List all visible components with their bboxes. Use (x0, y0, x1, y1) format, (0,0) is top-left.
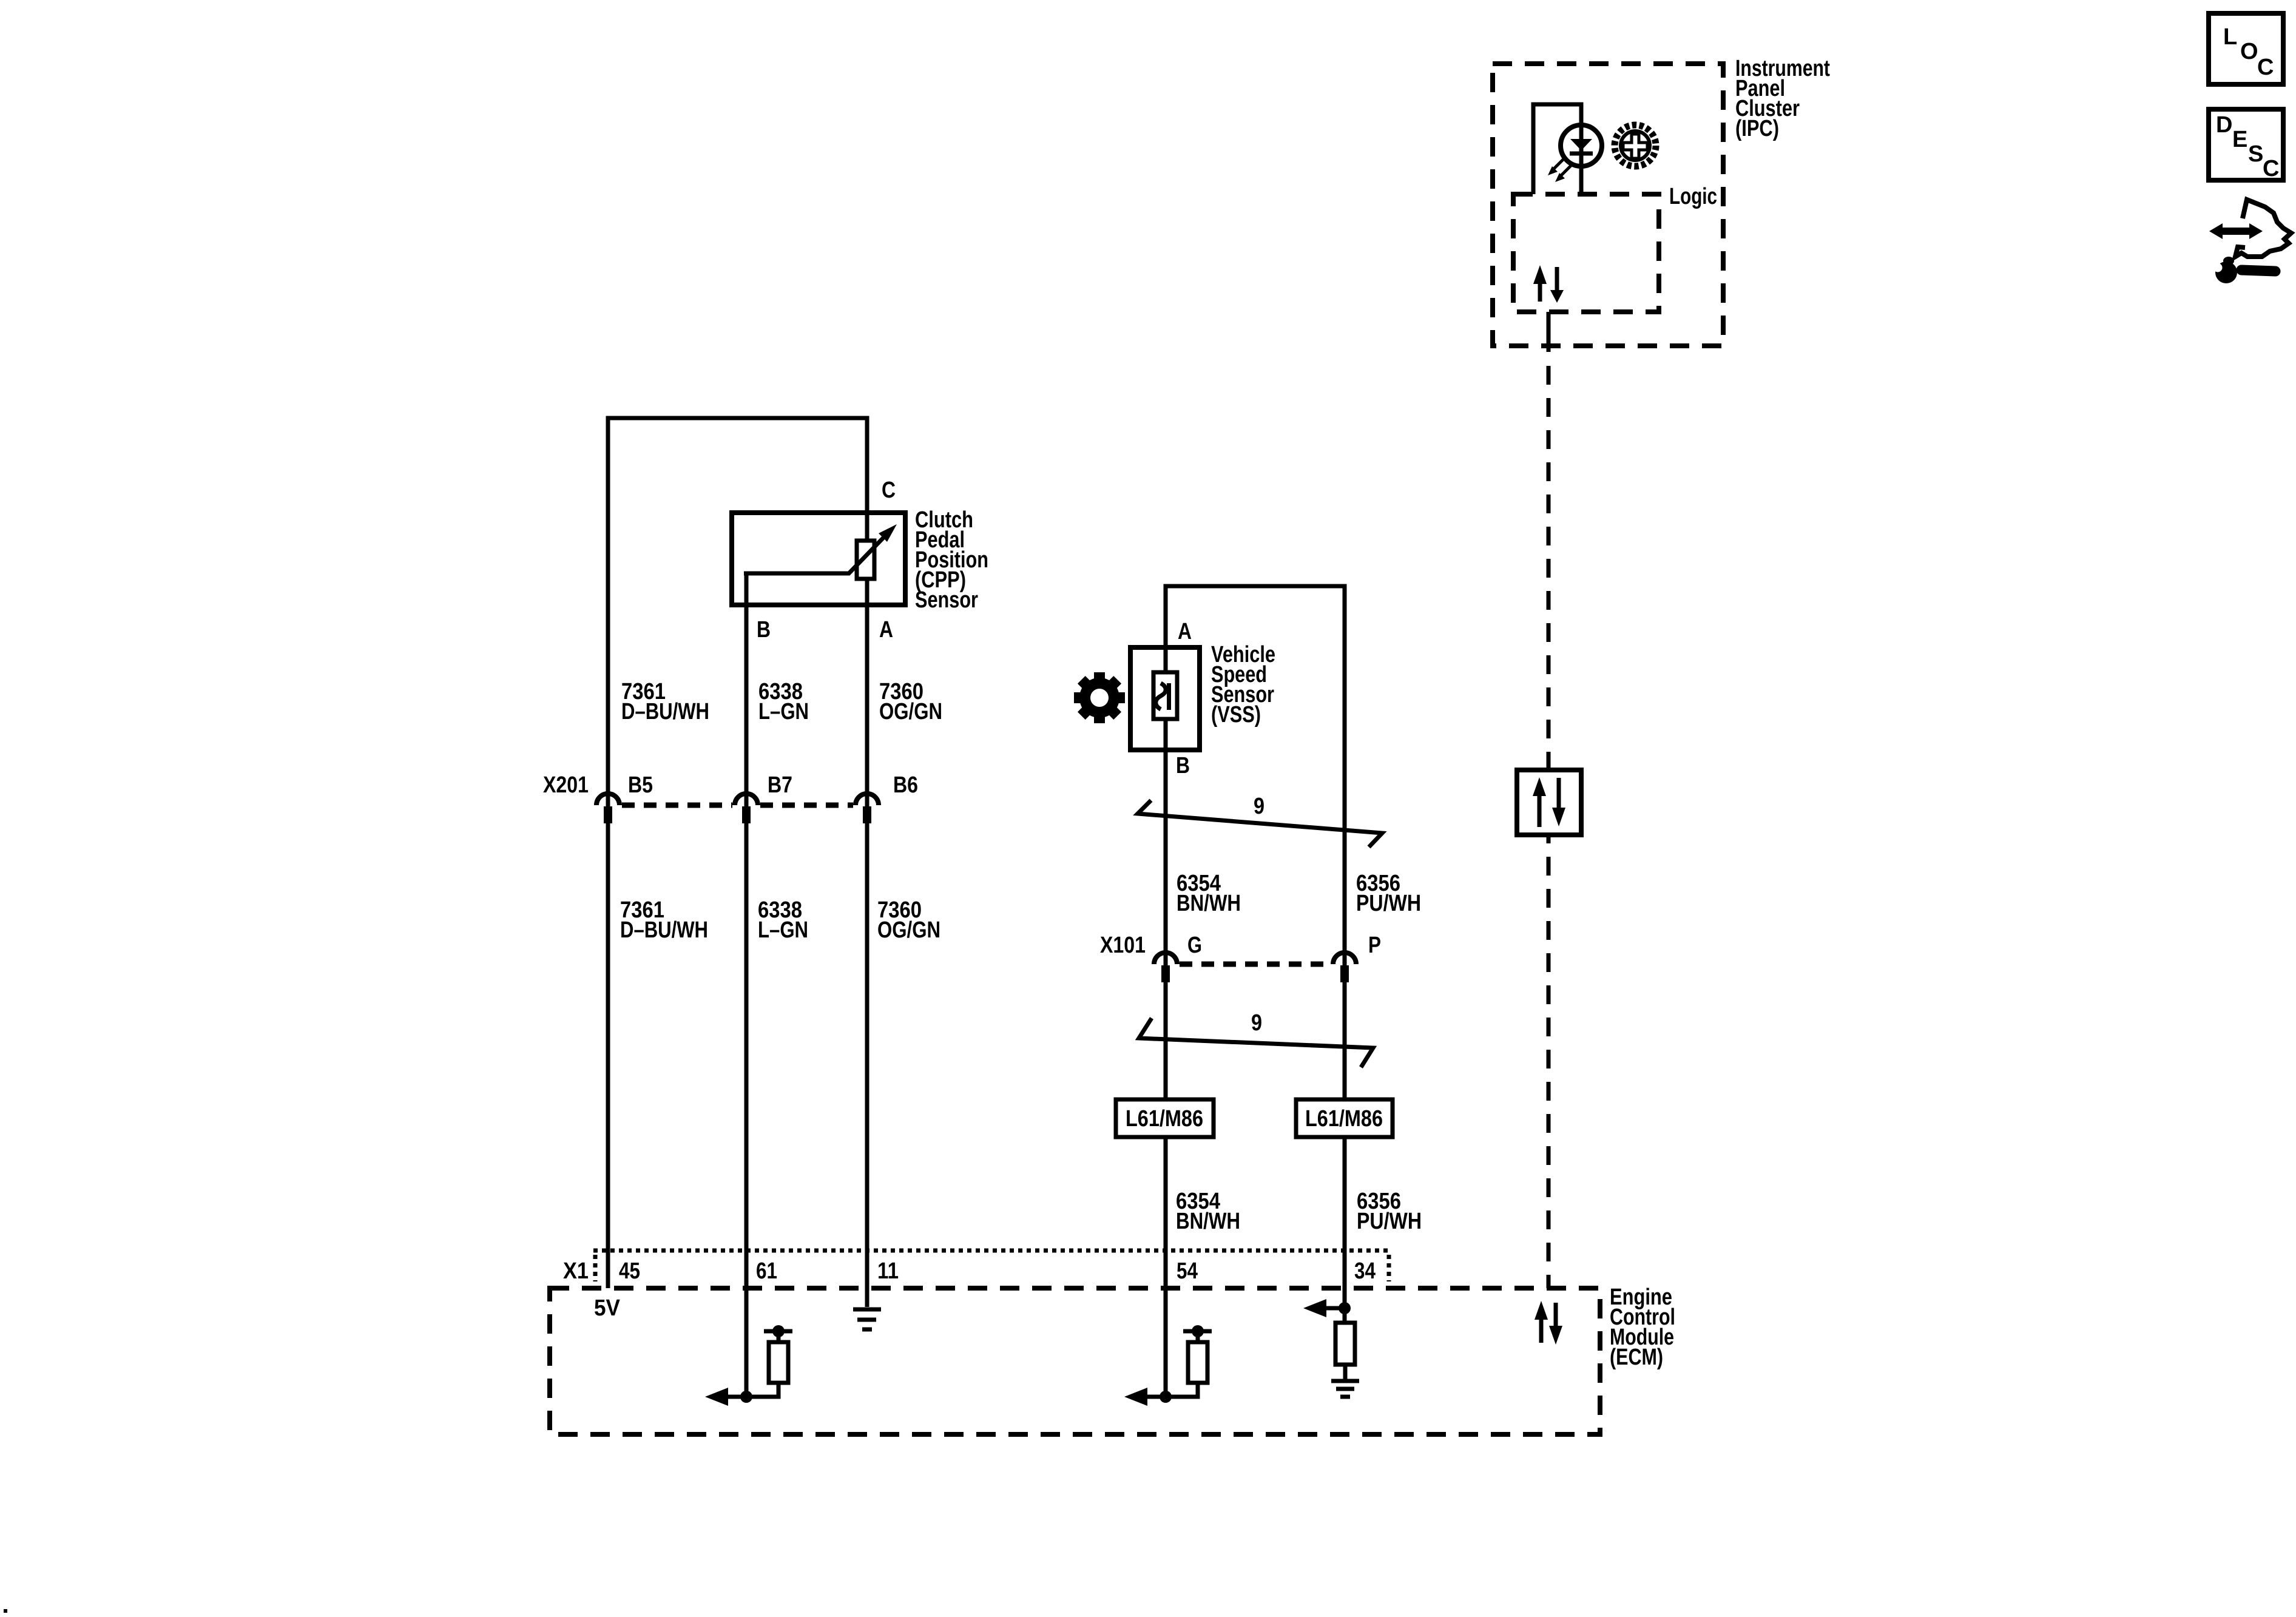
label Vehicle Speed Sensor (VSS) (1211, 642, 1275, 727)
connector X201 terminal B6 (856, 794, 879, 823)
svg-text:X1: X1 (563, 1258, 589, 1284)
svg-text:61: 61 (756, 1258, 777, 1284)
IPC indicator wire loop (1533, 104, 1581, 194)
wire label 6356 PU/WH lower (1357, 1189, 1422, 1234)
option box L61/M86 right (1296, 1099, 1393, 1137)
svg-text:(VSS): (VSS) (1211, 702, 1261, 727)
VSS pickup element box (1153, 672, 1177, 719)
serial data link lower dashed segment (1547, 857, 1551, 1288)
svg-text:Sensor: Sensor (915, 587, 978, 613)
svg-text:G: G (1187, 933, 1202, 958)
svg-text:B: B (757, 617, 771, 643)
potentiometer wiper arrow (744, 524, 897, 573)
svg-text:54: 54 (1177, 1258, 1198, 1284)
svg-text:PU/WH: PU/WH (1356, 891, 1421, 916)
svg-text:L61/M86: L61/M86 (1126, 1106, 1203, 1132)
wire label 7360 OG/GN lower (877, 897, 940, 943)
svg-text:B7: B7 (768, 772, 792, 798)
connector X101 terminal P (1333, 953, 1356, 982)
svg-text:Logic: Logic (1669, 184, 1717, 209)
serial data connector box on link (1517, 761, 1581, 843)
svg-text:B: B (1176, 753, 1190, 778)
svg-text:BN/WH: BN/WH (1176, 1209, 1240, 1234)
label Instrument Panel Cluster (IPC) (1735, 56, 1830, 141)
serial data arrows inside ECM (1535, 1301, 1562, 1345)
svg-text:D: D (2216, 112, 2232, 138)
wire label 6356 PU/WH upper (1356, 871, 1421, 916)
svg-text:OG/GN: OG/GN (877, 917, 940, 943)
ground symbol at ECM pin 11 (853, 1309, 881, 1329)
wire label 7360 OG/GN upper (879, 679, 942, 724)
serial data link from IPC to ECM (1547, 312, 1551, 761)
svg-text:9: 9 (1254, 794, 1264, 819)
connector X201 terminal B7 (735, 794, 758, 823)
svg-text:E: E (2232, 127, 2247, 152)
svg-text:(IPC): (IPC) (1735, 116, 1779, 141)
label Clutch Pedal Position (CPP) Sensor (915, 507, 988, 613)
svg-text:P: P (1368, 933, 1381, 958)
pull-up resistor network at ECM pin 61 (705, 1325, 792, 1406)
svg-text:C: C (2257, 55, 2274, 80)
svg-text:X101: X101 (1100, 933, 1146, 958)
serial data arrows in Logic box (1533, 265, 1564, 303)
svg-text:OG/GN: OG/GN (879, 699, 942, 724)
svg-text:O: O (2240, 39, 2258, 64)
wire 6354 BN/WH from VSS pin B down to ECM pin 54 (1164, 719, 1168, 1397)
svg-text:9: 9 (1251, 1010, 1262, 1036)
svg-text:X201: X201 (543, 772, 589, 798)
wire 7361 C-loop from CPP sensor pin C up over to left side (608, 418, 867, 805)
twisted pair symbol 9 upper (1138, 800, 1382, 847)
svg-text:A: A (879, 617, 893, 643)
svg-text:(ECM): (ECM) (1610, 1345, 1663, 1370)
wire label 6338 L-GN lower (758, 897, 808, 943)
Logic dashed box (1513, 194, 1659, 312)
wire label 6338 L-GN upper (758, 679, 809, 724)
connector X1 dotted line (593, 1251, 1391, 1281)
wire 7360 OG/GN from CPP pin A down to ECM pin 11 ground (865, 579, 869, 1307)
svg-text:34: 34 (1354, 1258, 1376, 1284)
svg-text:BN/WH: BN/WH (1177, 891, 1241, 916)
VSS sensor box (1130, 647, 1200, 750)
page artifact dot (4, 1609, 7, 1613)
connector X201 terminal B5 (596, 794, 620, 823)
svg-text:B5: B5 (628, 772, 653, 798)
wire 6354 BN/WH VSS loop pin A side (1166, 586, 1345, 1308)
svg-text:45: 45 (619, 1258, 640, 1284)
option box L61/M86 left (1116, 1099, 1214, 1137)
svg-text:11: 11 (877, 1258, 899, 1284)
svg-text:D–BU/WH: D–BU/WH (621, 699, 709, 724)
svg-text:A: A (1178, 619, 1192, 644)
svg-text:PU/WH: PU/WH (1357, 1209, 1422, 1234)
LED indicator in IPC (1561, 125, 1602, 166)
wire label 6354 BN/WH upper (1177, 871, 1241, 916)
gauge gear icon in IPC (1615, 125, 1656, 166)
DESC reference box (2209, 109, 2283, 181)
pull-up resistor network at ECM pin 54 (1124, 1325, 1212, 1406)
svg-text:C: C (882, 478, 896, 503)
twisted pair symbol 9 lower (1139, 1018, 1373, 1067)
pull-down resistor to ground at ECM pin 34 (1303, 1299, 1359, 1397)
LED light arrows (1548, 158, 1572, 182)
wire 7361 D-BU/WH lower segment to ECM pin 45 (606, 805, 610, 1288)
label Engine Control Module (ECM) (1610, 1284, 1675, 1370)
connector X101 terminal G (1154, 953, 1177, 982)
connector X201 dashed line (622, 803, 853, 808)
ECM dashed box (550, 1288, 1600, 1434)
potentiometer body in CPP sensor (857, 541, 874, 579)
wire 6338 L-GN from CPP wiper down to ECM pin 61 (745, 573, 749, 1397)
wire label 6354 BN/WH lower (1176, 1189, 1240, 1234)
VSS pickup symbol (1156, 683, 1171, 710)
svg-text:D–BU/WH: D–BU/WH (620, 917, 708, 943)
LOC reference box (2209, 13, 2283, 84)
service action icon (2204, 200, 2291, 283)
svg-text:C: C (2263, 156, 2279, 181)
CPP sensor box (732, 513, 905, 605)
VSS gear icon (1074, 672, 1125, 723)
svg-text:5V: 5V (594, 1295, 621, 1321)
svg-text:B6: B6 (893, 772, 918, 798)
svg-text:L61/M86: L61/M86 (1305, 1106, 1383, 1132)
svg-text:L: L (2223, 24, 2237, 50)
svg-text:S: S (2248, 141, 2263, 167)
wire label 7361 D-BU/WH upper (621, 679, 709, 724)
wire label 7361 D-BU/WH lower (620, 897, 708, 943)
connector X101 dashed line (1180, 962, 1331, 967)
IPC dashed box (1493, 64, 1723, 346)
svg-text:L–GN: L–GN (758, 917, 808, 943)
svg-text:L–GN: L–GN (758, 699, 809, 724)
